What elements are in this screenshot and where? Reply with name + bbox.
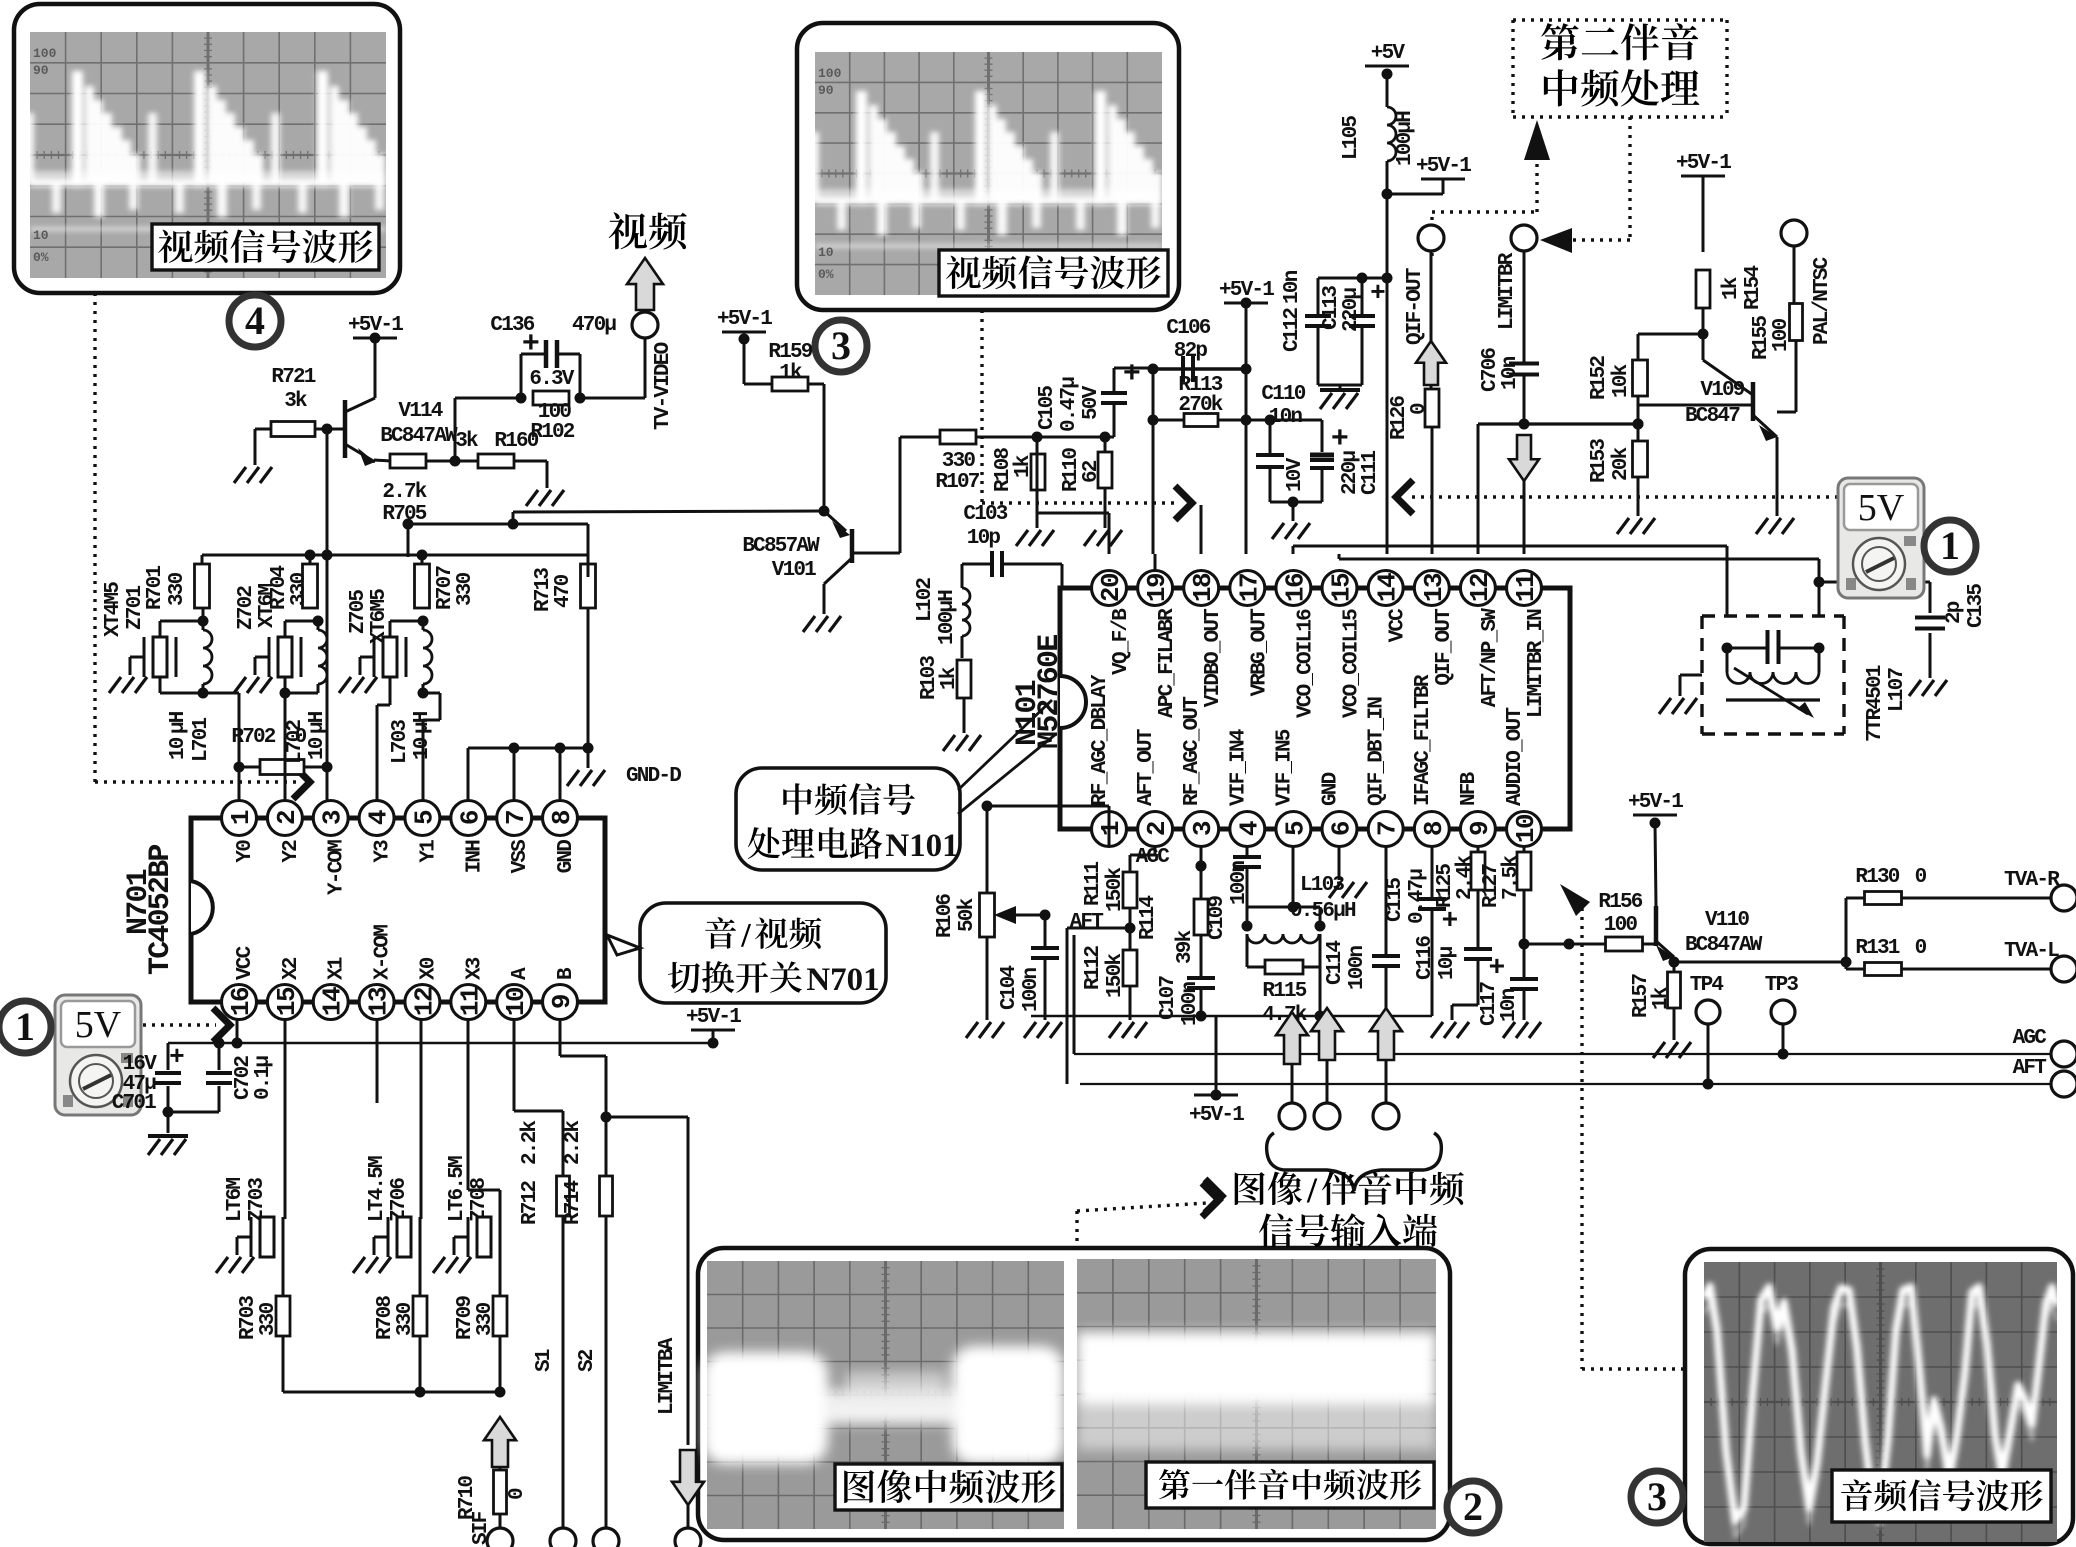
svg-text:Y-COM: Y-COM bbox=[326, 840, 349, 895]
svg-text:2.2k: 2.2k bbox=[519, 1121, 542, 1165]
svg-text:+5V-1: +5V-1 bbox=[1676, 152, 1731, 175]
power +5V-1 right of L105 bbox=[1421, 178, 1465, 181]
svg-text:13: 13 bbox=[364, 987, 394, 1016]
svg-text:2: 2 bbox=[272, 810, 302, 825]
ground under R721 bbox=[254, 429, 257, 465]
resistor R130 0 bbox=[1845, 898, 1848, 962]
output arrow 视频 bbox=[627, 258, 663, 310]
svg-text:X3: X3 bbox=[463, 957, 486, 980]
svg-text:+: + bbox=[1441, 906, 1457, 937]
svg-text:1: 1 bbox=[15, 1004, 35, 1049]
ground GND-D bbox=[587, 748, 590, 768]
svg-text:BC847AW: BC847AW bbox=[1685, 934, 1763, 957]
svg-text:V109: V109 bbox=[1700, 379, 1744, 402]
svg-text:AGC: AGC bbox=[1136, 846, 1171, 869]
svg-text:L102: L102 bbox=[914, 578, 937, 622]
svg-text:9: 9 bbox=[547, 994, 577, 1009]
svg-text:BC847: BC847 bbox=[1685, 405, 1740, 428]
potentiometer R106 50k bbox=[980, 893, 995, 937]
audio photo image bbox=[1704, 1262, 2057, 1542]
svg-text:100: 100 bbox=[1604, 914, 1638, 937]
svg-text:+: + bbox=[522, 328, 539, 362]
svg-text:C115: C115 bbox=[1384, 878, 1407, 922]
oscilloscope photo 4 image bbox=[30, 32, 386, 278]
svg-text:TP3: TP3 bbox=[1765, 974, 1799, 997]
oscilloscope photo 4 frame (video waveform top-left) bbox=[14, 4, 400, 293]
svg-text:R112: R112 bbox=[1082, 946, 1105, 990]
svg-text:100: 100 bbox=[1770, 318, 1793, 352]
AGC line bbox=[1074, 1053, 2051, 1055]
resistor R707 330 bbox=[415, 564, 430, 608]
svg-text:10: 10 bbox=[1511, 814, 1541, 843]
ground left of L107 bbox=[1680, 674, 1702, 677]
ground under C110/C111 bbox=[1270, 501, 1322, 504]
resistor R703 330 bbox=[276, 1296, 290, 1336]
svg-text:7: 7 bbox=[1373, 822, 1403, 836]
wire pin16 power rail bbox=[168, 1042, 713, 1045]
inductor L703 10uH bbox=[423, 630, 432, 684]
resistor R108 1k bbox=[1036, 437, 1039, 455]
svg-text:N701: N701 bbox=[806, 962, 879, 998]
N101 pin 10 bbox=[1507, 812, 1542, 847]
oscilloscope photo audio frame (bottom-right) bbox=[1685, 1249, 2073, 1544]
svg-text:16: 16 bbox=[1280, 573, 1310, 602]
N701 pin 2 bbox=[267, 801, 302, 836]
input terminals with brace bbox=[1276, 1012, 1308, 1064]
N701 pin 10 bbox=[497, 985, 532, 1020]
wire R713 top bbox=[587, 524, 590, 577]
inductor L103 0.56uH with R115 bbox=[1247, 906, 1320, 909]
svg-text:R153: R153 bbox=[1588, 439, 1611, 483]
svg-text:VQ_F/B: VQ_F/B bbox=[1110, 608, 1133, 675]
ground under R153 bbox=[1617, 518, 1655, 534]
N701 pin 1 bbox=[222, 801, 257, 836]
svg-text:16: 16 bbox=[226, 987, 256, 1016]
capacitor C112 10n bbox=[1382, 273, 1393, 284]
resistor R705 2.7k bbox=[390, 454, 426, 468]
svg-text:10n: 10n bbox=[1281, 270, 1304, 304]
svg-text:XT4M5: XT4M5 bbox=[102, 582, 125, 637]
svg-text:+: + bbox=[1370, 278, 1385, 308]
ground under V109 bbox=[1756, 518, 1794, 534]
oscilloscope photos 2 frame (bottom-center) bbox=[698, 1248, 1450, 1540]
svg-text:R701: R701 bbox=[144, 566, 167, 610]
dashed box 第二伴音中频处理 bbox=[1513, 20, 1727, 117]
svg-text:10: 10 bbox=[167, 737, 190, 760]
svg-text:R115: R115 bbox=[1262, 980, 1306, 1003]
PAL/NTSC terminal bbox=[1781, 220, 1807, 246]
photo 2 left image 图像中频波形 bbox=[707, 1261, 1064, 1529]
oscilloscope photo 3 frame (video waveform top-center) bbox=[797, 23, 1179, 310]
svg-text:C701: C701 bbox=[112, 1092, 156, 1115]
resistor R157 1k bbox=[1673, 962, 1676, 972]
svg-text:470: 470 bbox=[552, 574, 575, 608]
svg-text:BC857AW: BC857AW bbox=[742, 535, 820, 558]
svg-text:330: 330 bbox=[166, 572, 189, 606]
svg-text:QIF_DBT_IN: QIF_DBT_IN bbox=[1366, 697, 1389, 806]
N701 pin 16 bbox=[222, 985, 257, 1020]
block arrow SIF input bbox=[484, 1417, 516, 1467]
capacitor C135 2p bbox=[1814, 577, 1825, 588]
svg-text:C110: C110 bbox=[1261, 383, 1305, 406]
svg-text:100n: 100n bbox=[1346, 946, 1369, 990]
svg-text:R114: R114 bbox=[1137, 896, 1160, 940]
svg-text:0%: 0% bbox=[818, 267, 834, 282]
svg-text:7.5k: 7.5k bbox=[1500, 856, 1523, 900]
N101 pin 6 bbox=[1322, 812, 1357, 847]
svg-text:+: + bbox=[1488, 953, 1504, 984]
circled number 4 bbox=[229, 295, 281, 347]
svg-text:5: 5 bbox=[409, 810, 439, 825]
svg-text:0.1µ: 0.1µ bbox=[252, 1056, 275, 1100]
svg-text:VCO_COIL15: VCO_COIL15 bbox=[1341, 609, 1364, 718]
wire LIMITBR junction to pin12 bbox=[1478, 422, 1638, 425]
svg-text:50k: 50k bbox=[956, 898, 979, 932]
N701 pin 4 bbox=[359, 801, 394, 836]
svg-text:1k: 1k bbox=[779, 362, 802, 385]
capacitor C702 0.1u bbox=[218, 1043, 221, 1070]
svg-text:10µ: 10µ bbox=[1436, 946, 1459, 980]
svg-text:4: 4 bbox=[245, 298, 265, 343]
svg-text:10n: 10n bbox=[1498, 988, 1521, 1022]
svg-text:2.4k: 2.4k bbox=[1454, 856, 1477, 900]
svg-text:VSS: VSS bbox=[509, 840, 532, 874]
svg-text:R721: R721 bbox=[271, 366, 315, 389]
resistor R713 470 bbox=[581, 564, 596, 608]
svg-text:10n: 10n bbox=[1269, 406, 1303, 429]
terminal TVA-L bbox=[2051, 956, 2076, 982]
svg-text:0: 0 bbox=[1915, 866, 1927, 889]
svg-text:5V: 5V bbox=[75, 1004, 122, 1046]
transistor V109 BC847 bbox=[1751, 382, 1756, 421]
N701 pin 7 bbox=[497, 801, 532, 836]
wire pins 6-7-8 to GND-D bbox=[468, 747, 588, 750]
svg-text:330: 330 bbox=[454, 572, 477, 606]
filter output common wire bbox=[283, 1391, 500, 1394]
dotted arrow QIF-OUT to box bbox=[1430, 212, 1433, 256]
svg-text:R130: R130 bbox=[1855, 866, 1899, 889]
svg-text:4: 4 bbox=[364, 810, 394, 825]
callout 中频信号处理电路N101 bbox=[736, 768, 960, 870]
svg-text:R714: R714 bbox=[562, 1181, 585, 1225]
ground under C112/C113 bbox=[1318, 384, 1362, 387]
svg-text:2p: 2p bbox=[1943, 601, 1966, 624]
svg-text:R712: R712 bbox=[519, 1181, 542, 1225]
wire AGC line left end bbox=[1073, 935, 1076, 1054]
svg-text:1: 1 bbox=[226, 810, 256, 825]
resistor R152 10k bbox=[1638, 333, 1703, 336]
svg-text:QIF_OUT: QIF_OUT bbox=[1433, 609, 1456, 686]
svg-text:+5V-1: +5V-1 bbox=[686, 1006, 741, 1029]
TV-VIDEO output terminal bbox=[644, 338, 647, 398]
terminal S2 bbox=[593, 1528, 619, 1547]
svg-text:3k: 3k bbox=[284, 390, 307, 413]
dotted pointer meter to N701 pin16 bbox=[143, 1023, 216, 1026]
svg-text:V110: V110 bbox=[1705, 909, 1749, 932]
circled number 2 bbox=[1447, 1481, 1499, 1533]
N101 pin 17 bbox=[1230, 571, 1265, 606]
dotted arrow box to LIMITBR bbox=[1628, 117, 1631, 240]
N101 pin 16 bbox=[1276, 571, 1311, 606]
dotted pointer to audio photo bbox=[1580, 908, 1583, 1369]
svg-text:20: 20 bbox=[1096, 573, 1126, 602]
svg-text:10: 10 bbox=[501, 987, 531, 1016]
N101 pin 4 bbox=[1230, 812, 1265, 847]
circled number 1 left bbox=[0, 1001, 51, 1053]
svg-text:IFAGC_FILTBR: IFAGC_FILTBR bbox=[1412, 674, 1435, 806]
resistor R704 330 bbox=[303, 564, 318, 608]
svg-text:330: 330 bbox=[474, 1302, 497, 1336]
resistor R103 1k bbox=[957, 660, 971, 698]
svg-text:GND: GND bbox=[1320, 772, 1343, 806]
svg-text:470µ: 470µ bbox=[572, 314, 616, 337]
resistor R110 62 bbox=[1104, 437, 1107, 452]
svg-text:Y2: Y2 bbox=[280, 840, 303, 863]
svg-text:8: 8 bbox=[1419, 821, 1449, 836]
svg-text:150k: 150k bbox=[1104, 868, 1127, 912]
ground pin6 bbox=[1338, 846, 1341, 880]
N701 pin 15 bbox=[267, 985, 302, 1020]
power +5V-1 above R154 bbox=[1681, 175, 1725, 178]
svg-text:V114: V114 bbox=[398, 400, 442, 423]
node 3k junction bbox=[450, 456, 461, 467]
svg-text:2: 2 bbox=[1142, 821, 1172, 836]
N701 pin 11 bbox=[451, 985, 486, 1020]
svg-text:6: 6 bbox=[455, 810, 485, 825]
svg-text:2: 2 bbox=[1463, 1484, 1483, 1529]
svg-text:9: 9 bbox=[1465, 821, 1495, 836]
svg-text:2.7k: 2.7k bbox=[382, 481, 426, 504]
svg-text:0.47µ: 0.47µ bbox=[1058, 377, 1081, 432]
node AFT bbox=[1129, 908, 1132, 950]
svg-text:N101: N101 bbox=[885, 828, 958, 864]
svg-text:R159: R159 bbox=[768, 341, 812, 364]
svg-text:Z703: Z703 bbox=[246, 1178, 269, 1222]
svg-text:0: 0 bbox=[506, 1488, 529, 1500]
svg-text:SIF: SIF bbox=[470, 1511, 493, 1545]
svg-text:2.2k: 2.2k bbox=[562, 1121, 585, 1165]
svg-text:14: 14 bbox=[1373, 573, 1403, 602]
svg-text:L701: L701 bbox=[190, 718, 213, 762]
power +5V and inductor L105 bbox=[1365, 65, 1409, 68]
N101 pin 20 bbox=[1092, 571, 1127, 606]
N701 pin 12 bbox=[405, 985, 440, 1020]
svg-text:39k: 39k bbox=[1174, 930, 1197, 964]
svg-text:X1: X1 bbox=[326, 957, 349, 980]
svg-text:330: 330 bbox=[257, 1302, 280, 1336]
resistor R153 20k bbox=[1637, 396, 1640, 442]
svg-text:14: 14 bbox=[318, 987, 348, 1016]
power +5V-1 above V110 bbox=[1633, 814, 1677, 817]
svg-text:AUDIO_OUT: AUDIO_OUT bbox=[1504, 708, 1527, 806]
IC N701 TC4052BP body bbox=[191, 818, 605, 1002]
IC N101 M52760E body bbox=[1060, 588, 1570, 829]
resistor R154 1k bbox=[1696, 270, 1710, 308]
N101 pin 18 bbox=[1184, 571, 1219, 606]
svg-text:15: 15 bbox=[272, 987, 302, 1016]
svg-text:TVA-R: TVA-R bbox=[2004, 869, 2060, 892]
inductor L701 10uH bbox=[203, 630, 212, 684]
svg-text:7TR4501: 7TR4501 bbox=[1864, 665, 1887, 742]
svg-text:C104: C104 bbox=[998, 966, 1021, 1010]
svg-text:90: 90 bbox=[818, 83, 834, 98]
multimeter icon 5V right bbox=[1838, 478, 1924, 598]
svg-text:LIMITBA: LIMITBA bbox=[656, 1337, 679, 1415]
svg-text:7: 7 bbox=[501, 811, 531, 825]
svg-text:Y0: Y0 bbox=[234, 840, 257, 863]
svg-text:X-COM: X-COM bbox=[372, 925, 395, 980]
resistor R708 330 bbox=[413, 1296, 427, 1336]
svg-text:10k: 10k bbox=[1610, 364, 1633, 398]
svg-text:S2: S2 bbox=[576, 1349, 599, 1372]
svg-text:100µH: 100µH bbox=[1394, 111, 1417, 166]
svg-text:11: 11 bbox=[1511, 573, 1541, 602]
svg-text:6.3V: 6.3V bbox=[529, 368, 574, 391]
multimeter icon 5V left bbox=[55, 995, 141, 1115]
svg-text:TP4: TP4 bbox=[1690, 974, 1724, 997]
svg-text:62: 62 bbox=[1080, 460, 1103, 483]
resistor R127 7.5k bbox=[1523, 846, 1526, 853]
svg-text:VCC: VCC bbox=[1387, 608, 1410, 643]
brace under input terminals bbox=[1267, 1133, 1442, 1191]
svg-text:R702: R702 bbox=[231, 726, 275, 749]
svg-text:+5V-1: +5V-1 bbox=[1189, 1104, 1244, 1127]
power +5V-1 for R159 bbox=[722, 331, 766, 334]
terminal S1 bbox=[550, 1528, 576, 1547]
svg-text:18: 18 bbox=[1188, 573, 1218, 602]
ground under R160 bbox=[546, 461, 549, 488]
svg-text:10n: 10n bbox=[1499, 356, 1522, 390]
svg-text:10: 10 bbox=[306, 737, 329, 760]
svg-text:3k: 3k bbox=[455, 430, 478, 453]
svg-text:12: 12 bbox=[409, 987, 439, 1016]
circled number 3 bottom bbox=[1631, 1471, 1683, 1523]
svg-text:100: 100 bbox=[818, 66, 842, 81]
wire emitter rail to V101 bbox=[513, 511, 824, 512]
svg-text:QIF-OUT: QIF-OUT bbox=[1404, 268, 1427, 345]
resistor R710 0 bbox=[494, 1470, 507, 1514]
N701 pin 5 bbox=[405, 801, 440, 836]
capacitor C114 100n bbox=[1385, 846, 1388, 954]
svg-text:L703: L703 bbox=[389, 720, 412, 764]
callout pointer to N701 bbox=[607, 935, 640, 955]
svg-text:GND-D: GND-D bbox=[626, 765, 681, 788]
power +5V-1 bottom middle bbox=[1215, 1016, 1218, 1095]
svg-text:C112: C112 bbox=[1281, 308, 1304, 352]
svg-text:1k: 1k bbox=[938, 667, 961, 690]
svg-text:R131: R131 bbox=[1855, 937, 1899, 960]
resistor R155 100 bbox=[1790, 304, 1803, 341]
resistor R156 100 bbox=[1606, 937, 1643, 951]
block arrow down to pin11 bbox=[1509, 435, 1539, 481]
svg-text:Y1: Y1 bbox=[417, 840, 440, 863]
svg-text:C103: C103 bbox=[963, 503, 1007, 526]
wire pin19 stub bbox=[1154, 554, 1157, 571]
svg-text:TV-VIDEO: TV-VIDEO bbox=[652, 342, 675, 430]
svg-text:X2: X2 bbox=[280, 957, 303, 980]
svg-text:100n: 100n bbox=[1020, 968, 1043, 1012]
svg-text:C111: C111 bbox=[1359, 451, 1382, 495]
svg-text:5: 5 bbox=[1280, 821, 1310, 836]
svg-text:LT6.5M: LT6.5M bbox=[446, 1156, 469, 1222]
power +5V-1 right of N701 bbox=[691, 1029, 735, 1032]
AFT line bbox=[1080, 1083, 2051, 1085]
wire top rail from R701/R704/R707 up bbox=[202, 554, 588, 557]
resistor R115 4.7k bbox=[1265, 960, 1303, 974]
resistor R712 2.2k bbox=[513, 1020, 516, 1111]
svg-text:µH: µH bbox=[306, 711, 329, 734]
svg-text:R154: R154 bbox=[1742, 266, 1765, 310]
svg-text:AFT: AFT bbox=[1070, 911, 1104, 934]
svg-text:VIDBO_OUT: VIDBO_OUT bbox=[1202, 609, 1225, 707]
ground under C701 bbox=[168, 1111, 219, 1114]
power +5V-1 top-left bbox=[353, 337, 397, 340]
svg-text:50V: 50V bbox=[1080, 385, 1103, 420]
svg-text:GND: GND bbox=[555, 840, 578, 874]
svg-text:330: 330 bbox=[942, 450, 976, 473]
svg-text:LT6M: LT6M bbox=[224, 1178, 247, 1222]
dotted pointer above photo 2 bbox=[1075, 1211, 1078, 1250]
svg-text:270k: 270k bbox=[1178, 394, 1222, 417]
svg-text:+: + bbox=[1123, 358, 1140, 392]
wire LIMITBA jog bbox=[601, 1112, 612, 1123]
svg-text:100n: 100n bbox=[1228, 861, 1251, 905]
svg-text:R156: R156 bbox=[1598, 891, 1642, 914]
svg-text:1k: 1k bbox=[1650, 987, 1673, 1010]
svg-text:Z702: Z702 bbox=[235, 586, 258, 630]
N701 pin 6 bbox=[451, 801, 486, 836]
power +5V-1 above pin17 bbox=[1224, 302, 1268, 305]
svg-text:15: 15 bbox=[1327, 573, 1357, 602]
callout pointer to N101 bbox=[958, 700, 1056, 814]
inductor L102 100uH bbox=[962, 588, 970, 636]
svg-text:220µ: 220µ bbox=[1340, 288, 1363, 332]
svg-text:V101: V101 bbox=[772, 559, 816, 582]
svg-text:3: 3 bbox=[831, 323, 851, 368]
wire C106/R113 nets bbox=[1114, 367, 1153, 370]
capacitor C109 100n bbox=[1246, 846, 1249, 856]
svg-text:1k: 1k bbox=[1012, 455, 1035, 478]
wires crystal3 bbox=[389, 621, 392, 637]
wire pin1 to R106 bbox=[1108, 806, 1111, 846]
test point TP3 bbox=[1771, 1000, 1795, 1024]
resistor R701 330 bbox=[195, 564, 210, 608]
wire pin18 stub bbox=[1200, 505, 1203, 554]
wires crystal1 bbox=[159, 621, 162, 637]
dotted pointer from photo 4 bbox=[93, 293, 96, 782]
resistor R114 39k bbox=[1194, 899, 1208, 935]
N101 pin 5 bbox=[1276, 812, 1311, 847]
svg-text:R126: R126 bbox=[1388, 396, 1411, 440]
svg-text:Y3: Y3 bbox=[372, 840, 395, 863]
svg-text:R102: R102 bbox=[530, 421, 574, 444]
svg-text:C105: C105 bbox=[1036, 386, 1059, 430]
svg-text:C109: C109 bbox=[1206, 896, 1229, 940]
N101 pin 13 bbox=[1414, 571, 1449, 606]
svg-text:0%: 0% bbox=[33, 250, 49, 265]
resistor R107 330 bbox=[940, 430, 976, 444]
svg-text:µH: µH bbox=[167, 711, 190, 734]
svg-text:C106: C106 bbox=[1166, 317, 1210, 340]
svg-text:AGC: AGC bbox=[2013, 1027, 2048, 1050]
wire base junction down to crystal rail bbox=[326, 429, 329, 555]
ground under V101 bbox=[803, 616, 841, 632]
circled number 1 right bbox=[1924, 520, 1976, 572]
dotted line right meter leftwards bbox=[1408, 495, 1838, 498]
svg-text:150k: 150k bbox=[1104, 954, 1127, 998]
svg-text:0.56µH: 0.56µH bbox=[1290, 900, 1356, 923]
svg-text:RF_AGC_DBLAY: RF_AGC_DBLAY bbox=[1089, 674, 1112, 806]
